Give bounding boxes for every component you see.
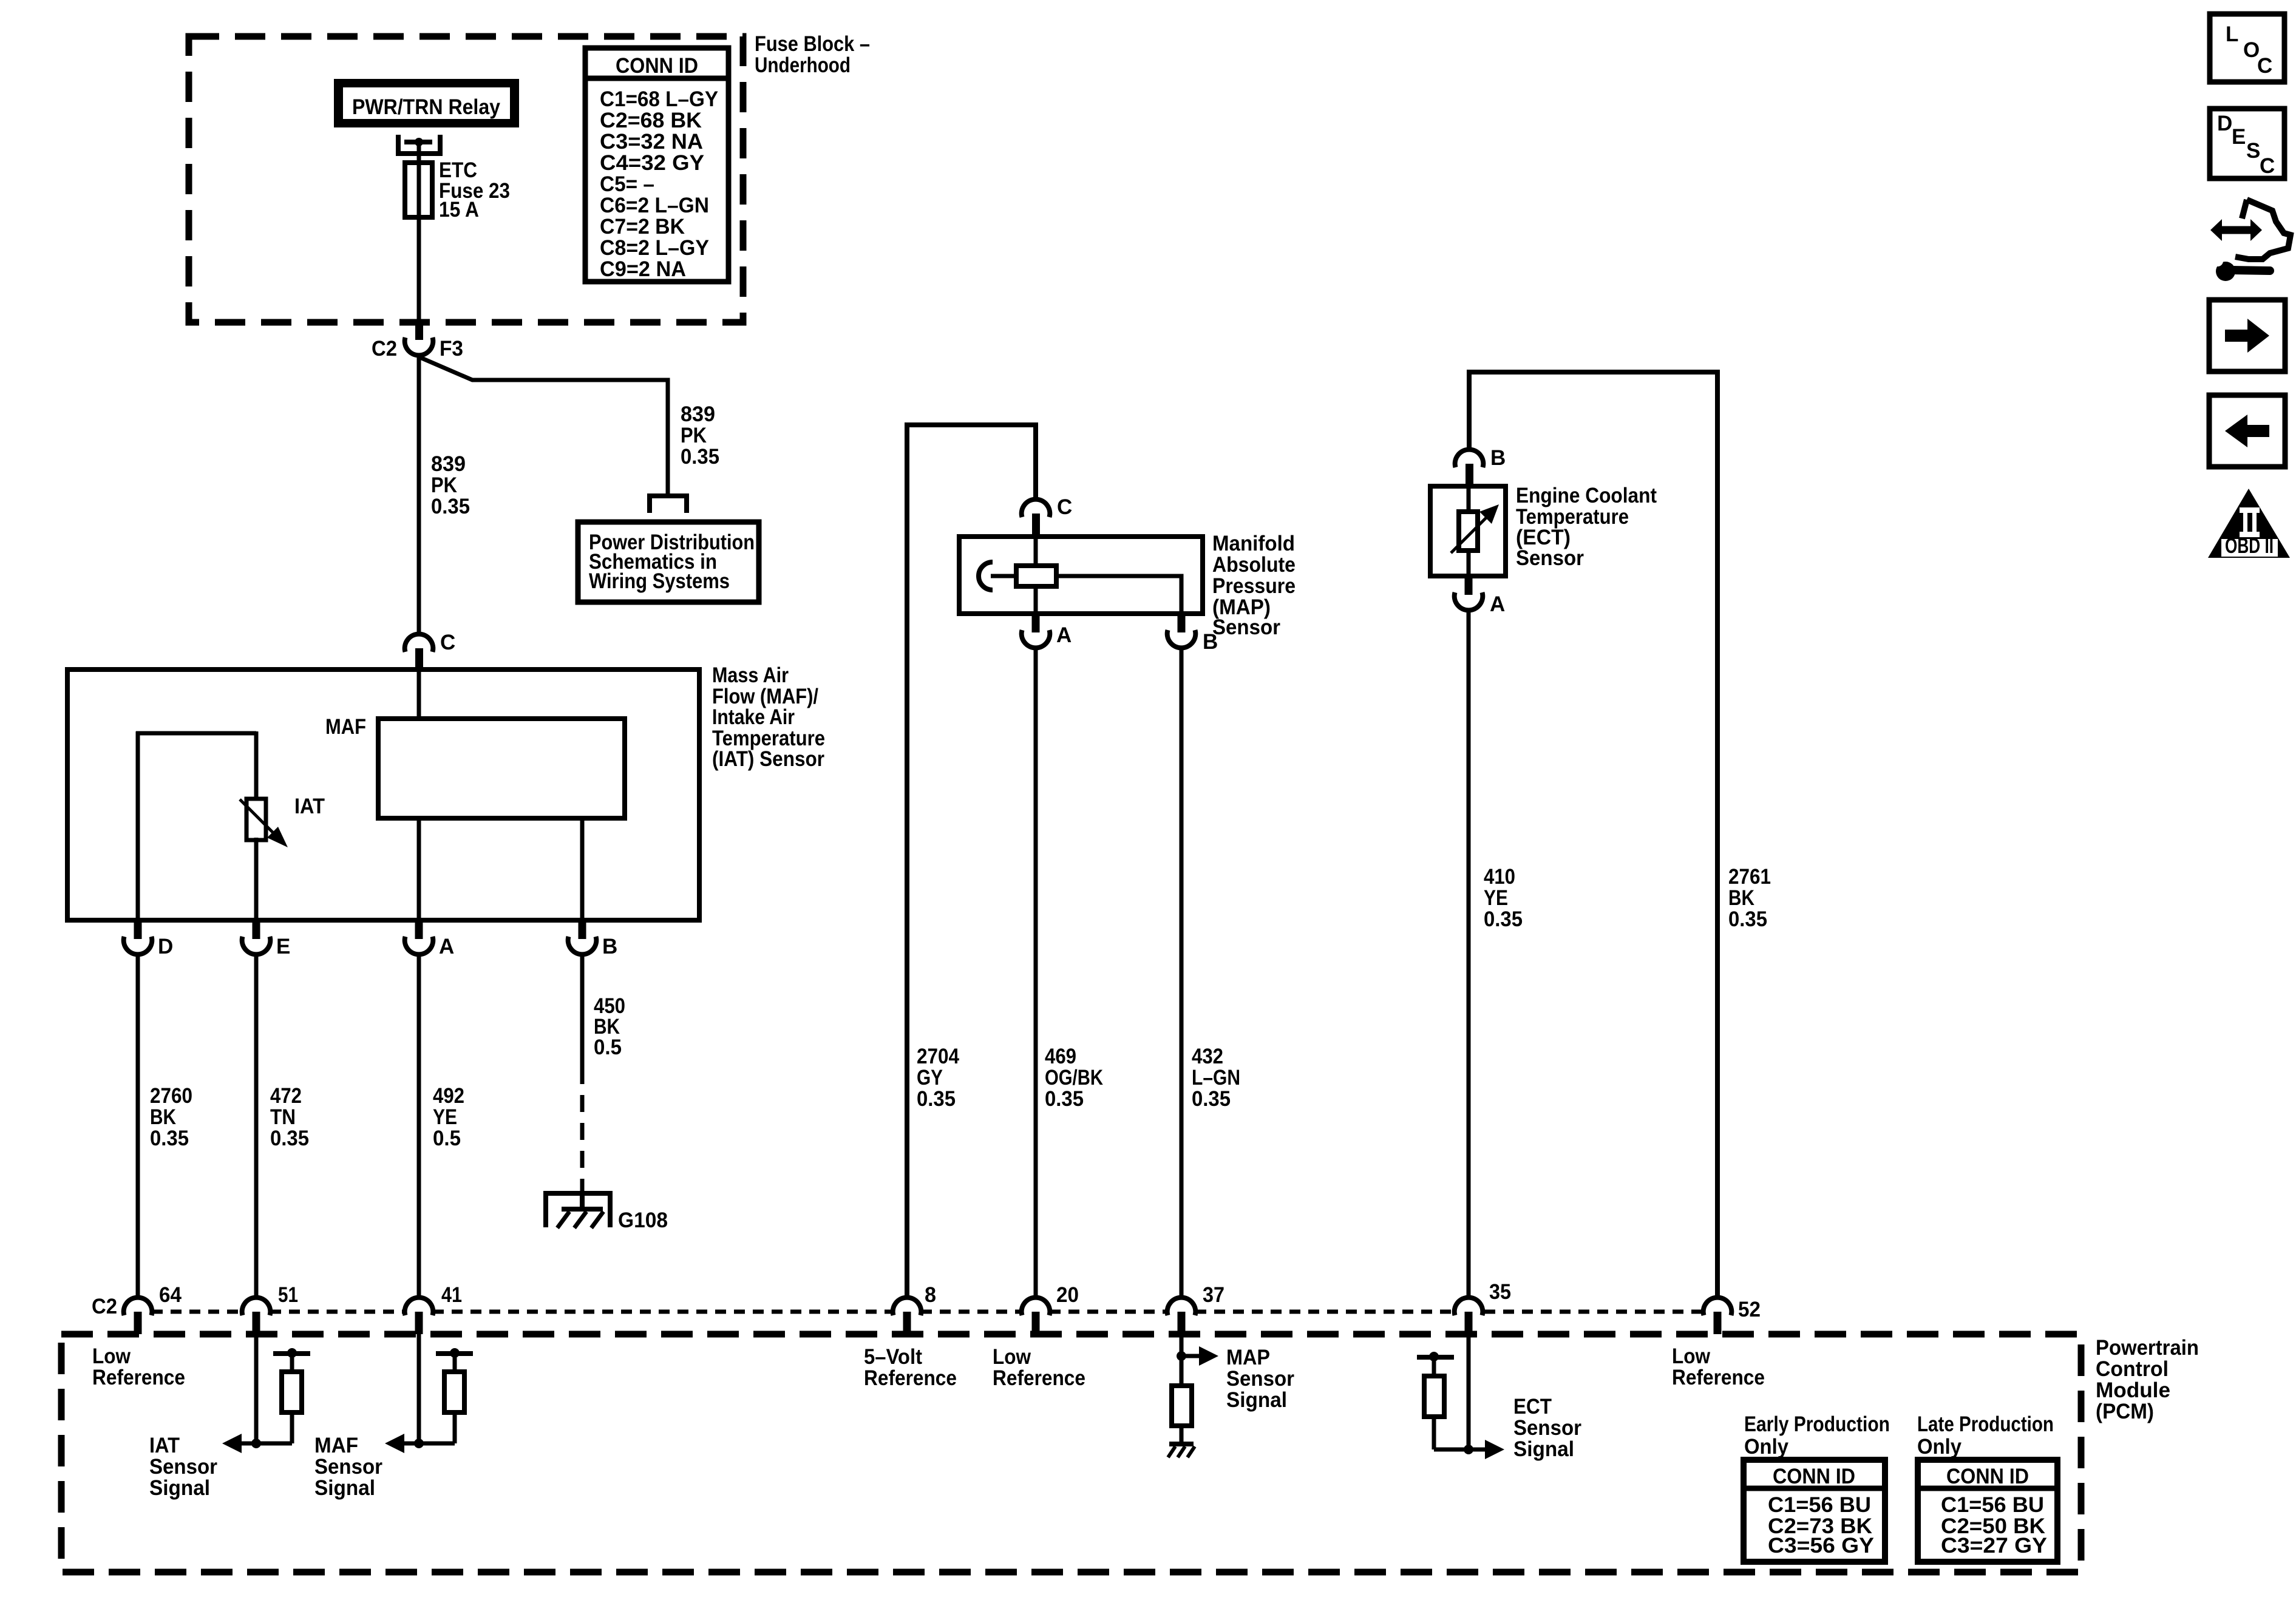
svg-text:5–Volt: 5–Volt — [864, 1345, 922, 1369]
table CONN ID late production — [1918, 1460, 2057, 1562]
svg-text:Sensor: Sensor — [1212, 615, 1280, 639]
pin 37 connector — [1167, 1298, 1196, 1315]
svg-text:432: 432 — [1192, 1045, 1223, 1068]
svg-text:Manifold: Manifold — [1212, 532, 1295, 555]
arrow MAF signal left — [385, 1434, 404, 1453]
icon vehicle directional with wrench — [2210, 200, 2291, 281]
ground G108 — [543, 1191, 613, 1196]
svg-text:C: C — [2257, 54, 2272, 78]
svg-text:Signal: Signal — [1513, 1437, 1574, 1461]
arrow MAP signal right — [1181, 1354, 1199, 1358]
connector MAP A cup — [1022, 630, 1050, 648]
wire 839 PK main vertical — [417, 355, 421, 635]
svg-text:D: D — [158, 935, 173, 958]
svg-text:Underhood: Underhood — [755, 53, 851, 77]
svg-text:Reference: Reference — [993, 1366, 1085, 1390]
svg-text:Fuse Block –: Fuse Block – — [755, 32, 870, 56]
svg-text:Reference: Reference — [1672, 1366, 1765, 1389]
ECT sensor box — [1430, 486, 1506, 576]
conn id table fuse block — [585, 48, 729, 282]
wire MAF signal horizontal — [404, 1442, 455, 1446]
connector E stub — [253, 920, 260, 939]
svg-text:0.35: 0.35 — [1045, 1087, 1084, 1111]
arrow ECT signal right — [1485, 1440, 1504, 1459]
svg-text:C5= –: C5= – — [600, 172, 654, 196]
wire pin 35 inside PCM — [1467, 1334, 1471, 1449]
wire stub into ground — [580, 1191, 585, 1209]
svg-text:2761: 2761 — [1728, 865, 1771, 889]
svg-text:Engine Coolant: Engine Coolant — [1516, 484, 1657, 507]
svg-text:D: D — [2217, 112, 2232, 135]
wire pin 51 inside PCM — [254, 1334, 259, 1443]
svg-text:A: A — [439, 935, 454, 958]
svg-text:A: A — [1056, 623, 1072, 647]
svg-text:MAP: MAP — [1226, 1346, 1270, 1369]
svg-text:839: 839 — [431, 452, 466, 476]
thermistor IAT — [246, 799, 266, 840]
svg-text:Signal: Signal — [149, 1476, 210, 1500]
pin 20 connector — [1022, 1298, 1050, 1315]
pin 8 connector — [893, 1298, 922, 1315]
svg-text:C4=32 GY: C4=32 GY — [600, 151, 704, 175]
svg-text:Only: Only — [1917, 1435, 1961, 1459]
wire 492 YE A to pin 41 — [417, 954, 421, 1299]
wire 450 BK dashed part — [580, 1067, 585, 1191]
svg-text:Powertrain: Powertrain — [2096, 1336, 2199, 1360]
svg-text:CONN ID: CONN ID — [1946, 1465, 2029, 1488]
svg-text:C1=68 L–GY: C1=68 L–GY — [600, 87, 718, 111]
svg-text:Early Production: Early Production — [1744, 1412, 1890, 1436]
svg-text:Mass Air: Mass Air — [712, 663, 789, 687]
svg-text:C3=27 GY: C3=27 GY — [1941, 1534, 2047, 1558]
svg-text:C2: C2 — [92, 1295, 117, 1318]
svg-text:472: 472 — [270, 1084, 302, 1108]
wire 450 BK solid part — [580, 954, 585, 1067]
MAP sensor box — [959, 537, 1203, 614]
resistor ECT pull-up rail — [1417, 1355, 1454, 1360]
MAP port arc — [979, 562, 993, 590]
wire 410 YE ECT A to pin 35 — [1467, 610, 1471, 1299]
svg-text:L: L — [2226, 22, 2238, 46]
svg-text:PK: PK — [431, 473, 457, 497]
wire 469 OG/BK MAP A to pin 20 — [1034, 648, 1038, 1299]
svg-text:(IAT) Sensor: (IAT) Sensor — [712, 747, 824, 771]
svg-text:8: 8 — [925, 1283, 936, 1307]
wire IAT signal horizontal — [242, 1442, 292, 1446]
wire resistor to junction MAF — [453, 1412, 457, 1443]
svg-text:410: 410 — [1484, 865, 1515, 889]
svg-text:20: 20 — [1056, 1283, 1079, 1307]
svg-text:PWR/TRN Relay: PWR/TRN Relay — [352, 95, 500, 119]
svg-text:Sensor: Sensor — [314, 1455, 382, 1479]
svg-text:IAT: IAT — [294, 795, 325, 818]
svg-text:Sensor: Sensor — [149, 1455, 217, 1479]
wire pin 41 inside PCM — [417, 1334, 421, 1443]
wire ECT element to A — [1467, 551, 1471, 576]
svg-text:0.5: 0.5 — [594, 1036, 622, 1059]
relay K1 PWR/TRN Relay label box — [334, 79, 519, 127]
svg-text:ECT: ECT — [1513, 1395, 1552, 1419]
connector MAP A stub — [1032, 614, 1040, 632]
icon LOC box — [2210, 14, 2284, 82]
svg-text:Sensor: Sensor — [1226, 1367, 1294, 1391]
wire MAP element to A — [1034, 586, 1038, 614]
svg-text:35: 35 — [1489, 1280, 1511, 1304]
svg-text:C9=2 NA: C9=2 NA — [600, 257, 686, 281]
pin 35 connector — [1455, 1298, 1483, 1315]
pin 41 connector — [405, 1298, 433, 1315]
junction dot IAT — [251, 1439, 261, 1448]
svg-text:Signal: Signal — [314, 1476, 375, 1500]
resistor MAP to ground — [1172, 1386, 1192, 1426]
svg-text:GY: GY — [917, 1066, 943, 1090]
fuse block - underhood dashed box — [189, 36, 743, 322]
wire MAP element to B — [1056, 576, 1181, 614]
wire IAT branch left vertical to pin D — [136, 731, 140, 920]
svg-text:CONN ID: CONN ID — [1773, 1465, 1855, 1488]
resistor IAT pull-up — [282, 1372, 302, 1412]
power distribution reference box — [578, 522, 759, 602]
connector A cup — [405, 937, 433, 954]
svg-text:Control: Control — [2096, 1357, 2169, 1381]
svg-text:C1=56 BU: C1=56 BU — [1941, 1493, 2044, 1517]
connector ECT A cup — [1455, 592, 1483, 610]
svg-text:G108: G108 — [618, 1209, 668, 1232]
relay contact terminal bracket — [396, 135, 401, 156]
svg-text:B: B — [602, 935, 617, 958]
PCM connector dotted line C2 — [152, 1310, 242, 1314]
svg-text:S: S — [2246, 139, 2260, 163]
connector ECT A stub — [1465, 576, 1473, 595]
svg-text:2760: 2760 — [150, 1084, 192, 1108]
svg-text:Only: Only — [1744, 1435, 1788, 1459]
svg-text:A: A — [1490, 592, 1505, 616]
svg-text:C3=56 GY: C3=56 GY — [1768, 1534, 1874, 1558]
resistor MAF pull-up rail — [436, 1351, 473, 1356]
wire MAF element to pin B — [580, 818, 585, 920]
svg-text:492: 492 — [433, 1084, 464, 1108]
svg-text:MAF: MAF — [314, 1434, 358, 1457]
svg-text:BK: BK — [150, 1105, 176, 1129]
svg-text:0.35: 0.35 — [270, 1127, 309, 1150]
pin 52 connector — [1703, 1298, 1732, 1315]
connector MAP B stub — [1178, 614, 1186, 632]
svg-text:41: 41 — [441, 1283, 462, 1307]
svg-text:Absolute: Absolute — [1212, 553, 1296, 577]
icon forward arrow box — [2209, 300, 2285, 371]
connector MAP B cup — [1167, 630, 1196, 648]
wire 472 TN E to pin 51 — [254, 954, 259, 1299]
svg-text:Intake Air: Intake Air — [712, 705, 795, 729]
connector B into ECT — [1455, 450, 1484, 467]
svg-text:BK: BK — [1728, 886, 1754, 910]
svg-text:Pressure: Pressure — [1212, 574, 1296, 598]
MAP element resistor — [1016, 566, 1056, 586]
connector A stub — [415, 920, 423, 939]
wire to IAT thermistor — [254, 731, 259, 801]
junction dot MAF — [414, 1439, 424, 1448]
fuse F23 ETC 15A — [405, 163, 432, 217]
wire IAT to box bottom — [254, 838, 259, 920]
svg-text:C3=32 NA: C3=32 NA — [600, 130, 703, 154]
svg-text:0.35: 0.35 — [1728, 907, 1767, 931]
svg-text:C: C — [2260, 154, 2275, 178]
resistor MAF pull-up — [444, 1372, 464, 1412]
wire ECT loop bridge — [1469, 372, 1717, 1299]
svg-text:E: E — [276, 935, 290, 958]
PCM dashed box — [61, 1334, 2081, 1572]
connector D cup — [124, 937, 152, 954]
wire resistor to ground MAP — [1180, 1426, 1184, 1444]
svg-text:OBD II: OBD II — [2225, 534, 2274, 558]
off-page connector bracket — [647, 493, 689, 498]
svg-text:Low: Low — [92, 1344, 131, 1368]
wire branch diagonal to power distribution — [419, 357, 668, 493]
ground internal MAP — [1169, 1442, 1194, 1446]
arrow IAT signal left — [222, 1434, 242, 1453]
connector C into MAF — [405, 634, 433, 652]
resistor IAT pull-up rail — [273, 1351, 310, 1356]
svg-text:Sensor: Sensor — [1513, 1416, 1581, 1440]
svg-text:37: 37 — [1203, 1283, 1224, 1307]
svg-text:Signal: Signal — [1226, 1388, 1287, 1412]
svg-text:C2=68 BK: C2=68 BK — [600, 109, 702, 132]
svg-text:L–GN: L–GN — [1192, 1066, 1240, 1090]
svg-text:C2: C2 — [372, 337, 397, 361]
wire ECT B to element — [1467, 489, 1471, 512]
svg-text:C8=2 L–GY: C8=2 L–GY — [600, 236, 709, 260]
icon OBD II triangle — [2208, 489, 2290, 558]
svg-text:YE: YE — [1484, 886, 1508, 910]
svg-text:51: 51 — [278, 1283, 298, 1307]
svg-text:YE: YE — [433, 1105, 457, 1129]
svg-text:469: 469 — [1045, 1045, 1076, 1068]
svg-text:IAT: IAT — [149, 1434, 180, 1457]
svg-text:64: 64 — [159, 1283, 182, 1307]
svg-text:2704: 2704 — [917, 1045, 959, 1068]
connector B stub — [579, 920, 586, 939]
wire MAP C to element — [1034, 539, 1038, 566]
wire MAF element to pin A — [417, 818, 421, 920]
wire resistor to junction — [290, 1412, 294, 1443]
svg-text:F3: F3 — [440, 337, 463, 361]
svg-text:Low: Low — [993, 1345, 1031, 1369]
svg-text:0.35: 0.35 — [1484, 907, 1523, 931]
junction dot MAP — [1177, 1351, 1186, 1361]
svg-text:C: C — [1057, 495, 1072, 519]
connector E cup — [242, 937, 271, 954]
wire relay to fuse — [417, 142, 421, 165]
pin 51 connector — [242, 1298, 271, 1315]
svg-text:Module: Module — [2096, 1378, 2170, 1402]
svg-text:MAF: MAF — [325, 715, 366, 739]
svg-text:15 A: 15 A — [439, 198, 479, 222]
MAF element box — [378, 719, 625, 818]
svg-text:52: 52 — [1738, 1298, 1761, 1321]
connector C2/F3 — [415, 322, 423, 340]
svg-text:C1=56 BU: C1=56 BU — [1768, 1493, 1871, 1517]
svg-text:CONN ID: CONN ID — [616, 54, 698, 78]
svg-text:B: B — [1490, 446, 1506, 470]
svg-text:E: E — [2232, 125, 2246, 149]
svg-text:(PCM): (PCM) — [2096, 1400, 2154, 1423]
wire ECT signal horizontal — [1434, 1448, 1485, 1452]
svg-text:Wiring Systems: Wiring Systems — [589, 569, 730, 593]
wire 432 L-GN MAP B to pin 37 — [1180, 648, 1184, 1299]
svg-text:Reference: Reference — [864, 1366, 957, 1390]
junction dot ECT — [1464, 1445, 1473, 1454]
pin 64 connector — [124, 1298, 152, 1315]
MAF/IAT sensor outer box — [67, 670, 699, 920]
wire ECT resistor to junction — [1432, 1417, 1436, 1449]
icon back arrow box — [2209, 395, 2285, 467]
svg-text:Reference: Reference — [92, 1366, 185, 1389]
svg-text:C: C — [440, 631, 455, 654]
svg-text:Late Production: Late Production — [1917, 1412, 2054, 1436]
svg-text:C6=2 L–GN: C6=2 L–GN — [600, 194, 709, 217]
svg-text:OG/BK: OG/BK — [1045, 1066, 1103, 1090]
icon DESC box — [2210, 109, 2284, 178]
wire 2760 BK D to pin 64 — [136, 954, 140, 1299]
resistor ECT pull-up — [1424, 1376, 1444, 1417]
svg-text:839: 839 — [681, 402, 715, 426]
svg-text:0.35: 0.35 — [1192, 1087, 1231, 1111]
svg-text:C7=2 BK: C7=2 BK — [600, 215, 685, 239]
connector C into MAP — [1022, 500, 1050, 517]
wire fuse to connector C2-F3 — [417, 217, 421, 322]
wire pin 37 inside PCM — [1180, 1334, 1184, 1386]
svg-text:TN: TN — [270, 1105, 296, 1129]
table CONN ID early production — [1744, 1460, 1885, 1562]
thermistor ECT — [1459, 512, 1478, 551]
svg-text:0.35: 0.35 — [681, 445, 719, 469]
connector D stub — [134, 920, 142, 939]
svg-text:PK: PK — [681, 424, 707, 447]
svg-text:0.5: 0.5 — [433, 1127, 461, 1150]
svg-text:Low: Low — [1672, 1344, 1711, 1368]
connector B cup — [568, 937, 597, 954]
MAP port link — [991, 574, 1016, 578]
wire IAT branch horizontal — [136, 731, 256, 736]
svg-text:0.35: 0.35 — [431, 495, 470, 518]
svg-text:Sensor: Sensor — [1516, 546, 1584, 570]
wire 5-volt reference bridge MAP — [907, 425, 1036, 1299]
svg-text:0.35: 0.35 — [150, 1127, 189, 1150]
svg-text:0.35: 0.35 — [917, 1087, 956, 1111]
wire C into MAF element — [417, 670, 421, 719]
svg-text:B: B — [1203, 630, 1218, 654]
